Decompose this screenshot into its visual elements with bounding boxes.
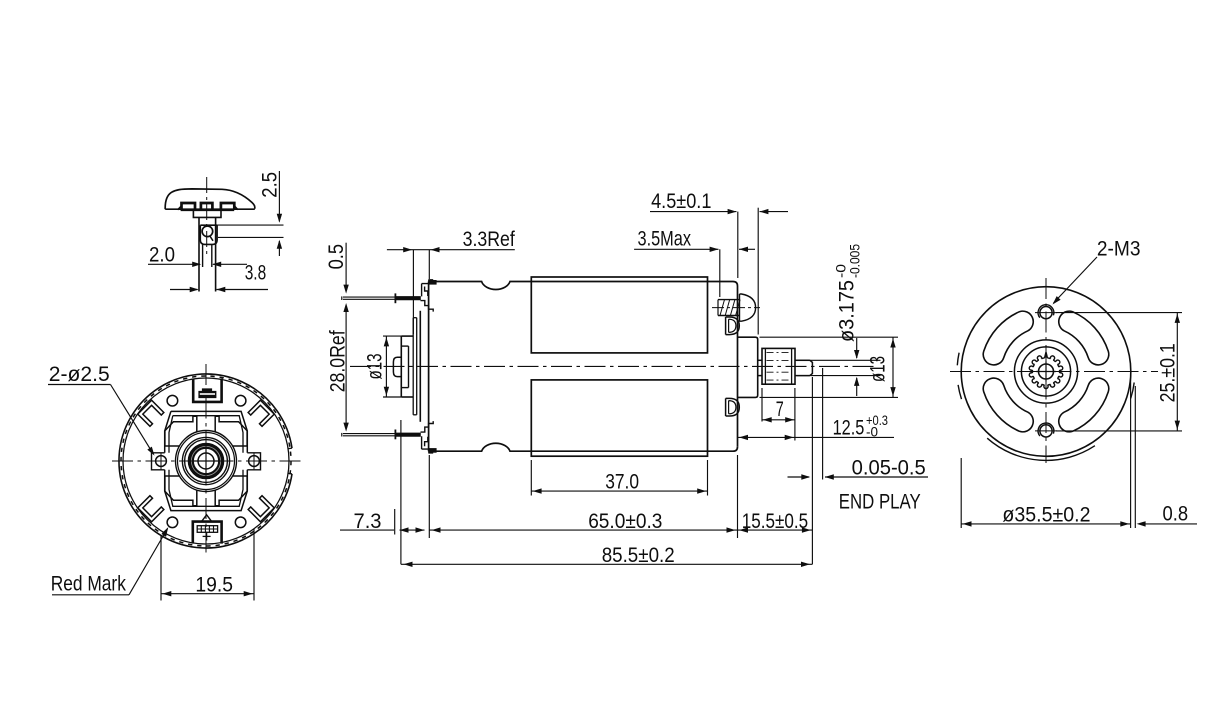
svg-text:7.3: 7.3 <box>354 510 382 533</box>
svg-text:0.05-0.5: 0.05-0.5 <box>852 456 926 479</box>
svg-text:15.5±0.5: 15.5±0.5 <box>742 510 808 533</box>
svg-text:25.±0.1: 25.±0.1 <box>1156 343 1179 402</box>
svg-text:4.5±0.1: 4.5±0.1 <box>651 190 711 213</box>
svg-text:19.5: 19.5 <box>195 574 233 597</box>
svg-text:ø3.175: ø3.175 <box>836 280 859 342</box>
svg-text:65.0±0.3: 65.0±0.3 <box>588 510 662 533</box>
svg-text:12.5: 12.5 <box>833 416 865 439</box>
svg-text:END PLAY: END PLAY <box>839 490 921 513</box>
svg-text:ø13: ø13 <box>364 354 387 380</box>
svg-text:Red Mark: Red Mark <box>51 573 127 596</box>
svg-text:0.5: 0.5 <box>325 244 348 270</box>
svg-text:ø13: ø13 <box>867 356 890 382</box>
svg-text:-0.005: -0.005 <box>847 244 863 278</box>
svg-text:-0: -0 <box>866 423 878 439</box>
svg-text:2.5: 2.5 <box>259 172 282 198</box>
svg-text:2.0: 2.0 <box>149 244 175 267</box>
svg-text:7: 7 <box>776 398 784 421</box>
svg-text:85.5±0.2: 85.5±0.2 <box>602 544 675 567</box>
svg-text:3.3Ref: 3.3Ref <box>463 228 515 251</box>
svg-text:2-M3: 2-M3 <box>1097 237 1141 260</box>
svg-text:37.0: 37.0 <box>605 470 639 493</box>
svg-text:3.5Max: 3.5Max <box>638 227 692 250</box>
svg-text:28.0Ref: 28.0Ref <box>326 330 349 392</box>
svg-text:0.8: 0.8 <box>1163 502 1189 525</box>
svg-text:2-ø2.5: 2-ø2.5 <box>49 363 110 386</box>
svg-text:ø35.5±0.2: ø35.5±0.2 <box>1002 503 1090 526</box>
svg-text:3.8: 3.8 <box>245 262 267 285</box>
